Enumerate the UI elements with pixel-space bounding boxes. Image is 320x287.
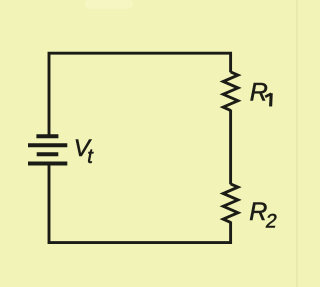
- battery Vt: [28, 136, 67, 163]
- battery plate 3 (short): [37, 152, 59, 156]
- battery plate 1 (short, top): [36, 134, 58, 138]
- battery plate 4 (long, bottom): [28, 162, 67, 166]
- svg-text:R: R: [250, 79, 268, 107]
- label R1: [250, 79, 271, 107]
- wire: battery top to top-left corner, across top, down to R1: [49, 53, 231, 135]
- wire: R2 bottom to bottom-right corner, across bottom, up to battery bottom: [49, 164, 231, 243]
- label R2: [249, 198, 278, 232]
- svg-text:R: R: [249, 198, 267, 226]
- wire: R1 bottom to R2 top: [229, 110, 232, 185]
- battery plate 2 (long): [28, 143, 67, 147]
- scan edge line right: [296, 0, 298, 287]
- label Vt: [74, 135, 95, 168]
- scan highlight patch top: [85, 0, 133, 9]
- resistor R1: [223, 72, 238, 111]
- resistor R2: [223, 184, 238, 223]
